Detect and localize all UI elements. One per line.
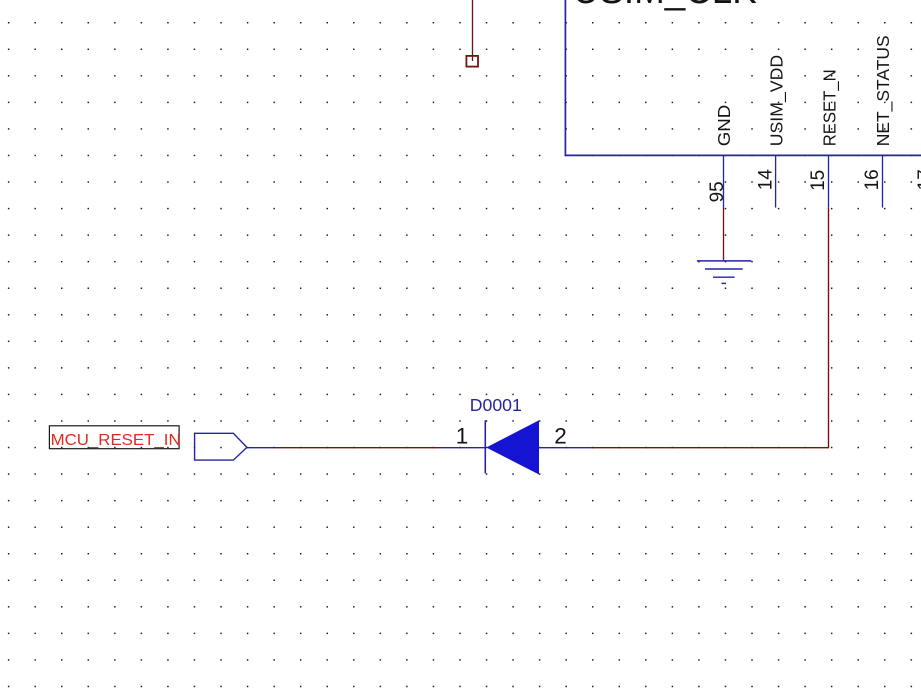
svg-text:1: 1 — [456, 424, 469, 449]
svg-text:14: 14 — [756, 169, 777, 191]
svg-text:USIM_VDD: USIM_VDD — [767, 55, 788, 147]
svg-text:GND: GND — [714, 105, 734, 147]
svg-text:MCU_RESET_IN: MCU_RESET_IN — [51, 432, 181, 449]
svg-text:NET_STATUS: NET_STATUS — [873, 35, 894, 146]
svg-text:16: 16 — [862, 169, 883, 190]
svg-text:2: 2 — [554, 424, 567, 449]
svg-text:17: 17 — [915, 169, 921, 190]
svg-text:RESET_N: RESET_N — [819, 69, 840, 146]
svg-text:95: 95 — [707, 181, 728, 202]
svg-text:USIM_CLK: USIM_CLK — [573, 0, 757, 12]
svg-text:D0001: D0001 — [470, 395, 522, 415]
svg-text:15: 15 — [808, 170, 829, 191]
